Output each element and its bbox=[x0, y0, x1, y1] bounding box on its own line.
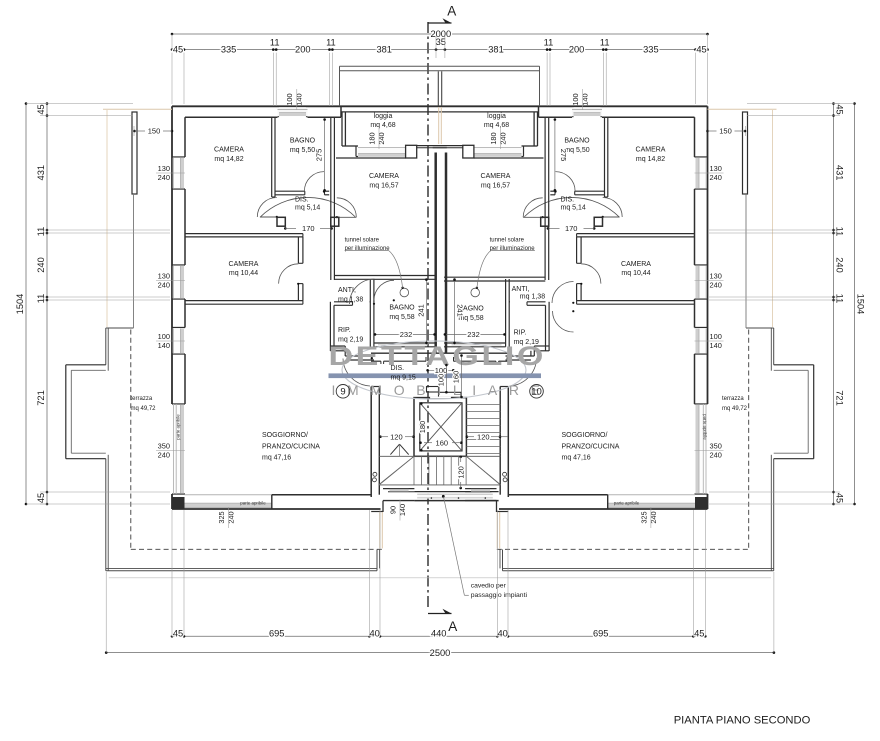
svg-text:loggia: loggia bbox=[374, 113, 393, 120]
svg-text:350: 350 bbox=[710, 441, 722, 450]
stair wall dx bbox=[507, 387, 509, 498]
shaft wall dx bbox=[445, 153, 448, 354]
svg-text:120: 120 bbox=[390, 432, 403, 441]
svg-text:mq 2,19: mq 2,19 bbox=[514, 339, 539, 346]
svg-text:per illuminazione: per illuminazione bbox=[345, 246, 391, 252]
svg-text:mq 4,68: mq 4,68 bbox=[370, 122, 395, 129]
dim 170 dx bbox=[593, 227, 596, 230]
svg-text:DIS.: DIS. bbox=[561, 197, 575, 204]
wall bagno bottom sx bbox=[275, 190, 305, 192]
svg-text:150: 150 bbox=[719, 127, 732, 136]
svg-text:140: 140 bbox=[710, 341, 722, 350]
svg-text:11: 11 bbox=[270, 37, 280, 47]
svg-text:mq 10,44: mq 10,44 bbox=[621, 270, 650, 277]
svg-text:ANTI,: ANTI, bbox=[338, 287, 356, 294]
door arc rip dx bbox=[552, 282, 574, 304]
svg-text:tunnel solare: tunnel solare bbox=[345, 238, 380, 244]
tan line top-left bbox=[103, 108, 172, 110]
door arc bagno 5,50 sx bbox=[304, 172, 324, 192]
stair flight boundary lines bbox=[379, 455, 501, 457]
dim chain bottom line bbox=[172, 635, 705, 637]
svg-text:240: 240 bbox=[158, 281, 170, 290]
balcony center divider bbox=[437, 71, 439, 106]
svg-text:160: 160 bbox=[452, 371, 461, 384]
svg-text:45: 45 bbox=[835, 493, 845, 503]
dim chain left line bbox=[46, 104, 48, 505]
wall rip left dx bbox=[548, 302, 550, 351]
window 100/140 soggiorno sx bbox=[173, 328, 184, 353]
tan lines bottom center dx bbox=[499, 512, 501, 548]
svg-text:240: 240 bbox=[36, 257, 46, 273]
tunnel solare circle sx bbox=[400, 288, 409, 297]
tunnel solare circle dx bbox=[471, 288, 480, 297]
svg-text:PRANZO/CUCINA: PRANZO/CUCINA bbox=[562, 443, 620, 450]
svg-text:150: 150 bbox=[148, 127, 161, 136]
svg-text:mq 5,14: mq 5,14 bbox=[295, 205, 320, 212]
corridor stub left dx bbox=[594, 217, 602, 226]
entry door apt 10 bbox=[510, 359, 537, 387]
elevator cab inner bbox=[420, 403, 462, 451]
svg-text:100: 100 bbox=[571, 93, 580, 105]
svg-text:mq 14,82: mq 14,82 bbox=[214, 156, 243, 163]
svg-text:180: 180 bbox=[367, 132, 376, 144]
wall camera10 right sx bbox=[297, 237, 299, 263]
svg-text:180: 180 bbox=[418, 421, 427, 434]
terrace dashed line dx bbox=[748, 330, 750, 549]
window 100/140 soggiorno dx bbox=[695, 328, 706, 353]
stair hall top wall bbox=[371, 352, 509, 354]
door arc camera 16,57 sx bbox=[337, 198, 357, 218]
svg-text:per illuminazione: per illuminazione bbox=[490, 246, 536, 252]
svg-text:140: 140 bbox=[581, 93, 590, 105]
door camera 14,82 dx bbox=[603, 216, 620, 218]
svg-text:RIP.: RIP. bbox=[514, 330, 527, 337]
window 100/140 bagno sx (top wall) bbox=[278, 107, 308, 116]
right exterior wall bbox=[707, 106, 709, 404]
corridor stub right dx bbox=[541, 217, 549, 226]
svg-text:100: 100 bbox=[285, 93, 294, 105]
dim 1504 right bbox=[854, 104, 856, 505]
window 130/240 camera 14,82 dx bbox=[695, 158, 706, 189]
top exterior wall left bbox=[172, 105, 341, 107]
elevator shaft outer bbox=[414, 398, 466, 457]
cavedio duct bbox=[427, 387, 439, 393]
svg-text:381: 381 bbox=[488, 44, 504, 54]
terrace outer edge sx bbox=[105, 328, 107, 365]
wall bagno558 left sx bbox=[369, 279, 371, 347]
svg-text:PIANTA PIANO SECONDO: PIANTA PIANO SECONDO bbox=[674, 715, 811, 727]
wall rip bottom dx bbox=[534, 345, 549, 347]
svg-text:mq 47,16: mq 47,16 bbox=[562, 455, 591, 462]
svg-text:11: 11 bbox=[600, 37, 610, 47]
svg-text:CAMERA: CAMERA bbox=[369, 173, 399, 180]
svg-text:695: 695 bbox=[593, 628, 609, 638]
svg-text:100: 100 bbox=[437, 374, 446, 387]
svg-text:11: 11 bbox=[326, 37, 336, 47]
svg-text:440: 440 bbox=[431, 628, 447, 638]
svg-text:11: 11 bbox=[36, 294, 46, 304]
step corner bottom sx bbox=[382, 501, 384, 512]
corridor stub left sx bbox=[277, 217, 285, 226]
svg-text:721: 721 bbox=[835, 390, 845, 406]
wall bagno bottom dx bbox=[575, 190, 605, 192]
svg-text:11: 11 bbox=[835, 294, 845, 304]
svg-text:241: 241 bbox=[455, 304, 464, 317]
apartment number 10 bbox=[530, 385, 544, 399]
wall bagno-loggia sx bbox=[330, 117, 332, 195]
svg-text:11: 11 bbox=[36, 227, 46, 237]
svg-text:35: 35 bbox=[436, 37, 446, 47]
dim 275 bagno sx bbox=[324, 119, 326, 192]
wall rip top sx bbox=[334, 301, 353, 303]
stairwell bottom wall dx bbox=[465, 488, 496, 490]
tan lines bottom center sx bbox=[379, 512, 381, 548]
svg-text:240: 240 bbox=[835, 257, 845, 273]
dim 241 sx bbox=[425, 279, 427, 343]
svg-text:200: 200 bbox=[295, 44, 311, 54]
elevator door gap bbox=[430, 397, 452, 399]
svg-text:335: 335 bbox=[643, 44, 659, 54]
wall bagno-loggia dx bbox=[548, 117, 550, 195]
svg-text:45: 45 bbox=[173, 44, 183, 54]
svg-text:terrazza: terrazza bbox=[722, 396, 744, 402]
svg-text:275: 275 bbox=[315, 149, 324, 162]
glass door 350/240 parte apribile dx bbox=[695, 405, 706, 494]
svg-text:ANTI,: ANTI, bbox=[512, 286, 530, 293]
corridor stub right sx bbox=[331, 217, 339, 226]
loggia south wall dx bbox=[522, 145, 538, 147]
svg-text:130: 130 bbox=[158, 164, 170, 173]
svg-text:240: 240 bbox=[498, 132, 507, 144]
svg-text:mq 1,38: mq 1,38 bbox=[338, 296, 363, 303]
dim extension lines top bbox=[272, 53, 274, 106]
svg-text:431: 431 bbox=[36, 165, 46, 181]
svg-text:1504: 1504 bbox=[856, 294, 866, 315]
svg-text:240: 240 bbox=[710, 173, 722, 182]
loggia left wall dx bbox=[533, 113, 535, 147]
dim 2500 line bbox=[106, 652, 774, 654]
door arc camera 16,57 dx bbox=[523, 198, 543, 218]
svg-text:mq 10,44: mq 10,44 bbox=[229, 270, 258, 277]
dim chain right line bbox=[833, 104, 835, 505]
wall camera10 top dx bbox=[577, 233, 695, 235]
bottom exterior wall dx bbox=[499, 508, 708, 510]
dim extension lines left bbox=[40, 103, 133, 105]
dim 120 stair dx bbox=[466, 435, 469, 438]
svg-text:CAMERA: CAMERA bbox=[481, 173, 511, 180]
wall rip bottom sx bbox=[330, 345, 345, 347]
wall rip left sx bbox=[329, 302, 331, 351]
door arc anti-bagno sx bbox=[374, 280, 394, 300]
stair direction arrow bbox=[390, 444, 399, 454]
svg-text:passaggio impianti: passaggio impianti bbox=[471, 592, 528, 599]
svg-text:DIS.: DIS. bbox=[391, 365, 405, 372]
svg-text:terrazza: terrazza bbox=[131, 396, 153, 402]
svg-text:275: 275 bbox=[559, 149, 568, 162]
window 100/140 bagno dx (top wall) bbox=[572, 107, 602, 116]
svg-text:45: 45 bbox=[696, 44, 706, 54]
svg-text:mq 16,57: mq 16,57 bbox=[481, 182, 510, 189]
svg-text:BAGNO: BAGNO bbox=[564, 138, 590, 145]
dim 150 sx bbox=[133, 126, 135, 136]
terrace dashed line sx bbox=[130, 330, 132, 549]
dim chain top line bbox=[172, 49, 708, 51]
dim extension lines right bbox=[747, 103, 840, 105]
svg-text:mq 16,57: mq 16,57 bbox=[369, 182, 398, 189]
loggia left wall sx bbox=[341, 113, 343, 147]
svg-text:parte apribile: parte apribile bbox=[703, 414, 708, 440]
svg-text:100: 100 bbox=[158, 332, 170, 341]
svg-text:130: 130 bbox=[710, 271, 722, 280]
wall camera16 left sx bbox=[330, 195, 332, 280]
stair treads upper flight bbox=[466, 404, 500, 406]
wall bagno558 left dx bbox=[505, 279, 507, 347]
svg-text:45: 45 bbox=[835, 104, 845, 114]
section marker top bbox=[428, 22, 452, 24]
dim extension lines bottom bbox=[171, 510, 173, 636]
section line A-A (dash-dot vertical) bbox=[427, 22, 429, 608]
svg-text:CAMERA: CAMERA bbox=[229, 261, 259, 268]
stair wall detail circles sx bbox=[373, 472, 377, 476]
svg-text:SOGGIORNO/: SOGGIORNO/ bbox=[562, 432, 608, 439]
entry door apt 9 bbox=[343, 359, 370, 387]
stair winder diagonal sx bbox=[379, 456, 415, 485]
terrace outer edge dx bbox=[773, 328, 775, 365]
dim 180 elevator bbox=[420, 402, 423, 405]
svg-text:40: 40 bbox=[370, 628, 380, 638]
svg-text:11: 11 bbox=[544, 37, 554, 47]
external stair sx bbox=[66, 364, 106, 366]
svg-text:mq 4,68: mq 4,68 bbox=[484, 122, 509, 129]
svg-text:loggia: loggia bbox=[487, 113, 506, 120]
svg-text:140: 140 bbox=[398, 504, 407, 516]
svg-text:721: 721 bbox=[36, 390, 46, 406]
balcony slab protrusion above bbox=[340, 65, 540, 67]
loggia parapet band bbox=[341, 105, 539, 107]
tan line top-right bbox=[708, 108, 777, 110]
dim 275 bagno dx bbox=[554, 119, 556, 192]
svg-text:232: 232 bbox=[400, 330, 413, 339]
svg-text:160: 160 bbox=[436, 438, 449, 447]
watermark bar bbox=[329, 373, 542, 378]
wall anti-top sx bbox=[334, 275, 435, 277]
door arc bagno 5,50 dx bbox=[556, 172, 576, 192]
dim 150 dx bbox=[745, 126, 747, 136]
dim 241 dx bbox=[454, 279, 456, 343]
loggia south wall sx bbox=[342, 145, 358, 147]
svg-text:100: 100 bbox=[435, 366, 448, 375]
door arc camera 10,44 dx bbox=[581, 264, 601, 284]
dim 2000 line bbox=[172, 33, 708, 35]
svg-text:mq 1,38: mq 1,38 bbox=[520, 294, 545, 301]
wall camera14-bagno sx bbox=[271, 117, 273, 197]
door arc anti-bagno dx bbox=[553, 311, 574, 332]
wall camera10 bottom (soggiorno top) dx bbox=[577, 300, 695, 302]
svg-text:325: 325 bbox=[217, 511, 226, 523]
wall camera10 bottom (soggiorno top) sx bbox=[185, 300, 303, 302]
svg-text:45: 45 bbox=[173, 628, 183, 638]
svg-text:CAMERA: CAMERA bbox=[636, 147, 666, 154]
svg-text:180: 180 bbox=[489, 132, 498, 144]
cavedio leader line bbox=[444, 497, 465, 596]
left exterior wall bbox=[171, 106, 173, 404]
stair big diagonal dx2 bbox=[467, 457, 501, 485]
svg-text:BAGNO: BAGNO bbox=[389, 305, 415, 312]
svg-text:100: 100 bbox=[710, 332, 722, 341]
dim 170 sx bbox=[284, 227, 287, 230]
wall camera14-bagno dx bbox=[607, 117, 609, 197]
svg-text:170: 170 bbox=[565, 224, 578, 233]
door arc rip sx bbox=[350, 279, 375, 304]
stair treads lower flight bbox=[413, 456, 415, 485]
window 130/240 camera 14,82 sx bbox=[173, 158, 184, 189]
lower terrace faint line bbox=[109, 577, 771, 579]
wall camera10 right dx bbox=[580, 237, 582, 263]
tan line terrace-left bbox=[106, 110, 108, 327]
svg-text:mq 5,58: mq 5,58 bbox=[389, 314, 414, 321]
wall camera16 left dx bbox=[548, 195, 550, 280]
svg-text:240: 240 bbox=[377, 132, 386, 144]
svg-text:431: 431 bbox=[835, 165, 845, 181]
shaft wall sx bbox=[434, 153, 437, 354]
wall anti-top dx bbox=[444, 276, 545, 278]
top exterior wall right bbox=[539, 105, 708, 107]
svg-text:11: 11 bbox=[835, 227, 845, 237]
glass door 350/240 parte apribile sx bbox=[173, 405, 184, 494]
svg-text:A: A bbox=[447, 4, 456, 19]
stair winder diagonal dx bbox=[466, 456, 500, 485]
section marker bottom bbox=[428, 613, 452, 615]
svg-text:parte apribile: parte apribile bbox=[240, 500, 266, 505]
svg-text:mq 2,19: mq 2,19 bbox=[338, 336, 363, 343]
svg-text:A: A bbox=[448, 619, 457, 634]
svg-text:240: 240 bbox=[710, 281, 722, 290]
svg-text:695: 695 bbox=[269, 628, 285, 638]
step corner bottom dx bbox=[496, 501, 498, 512]
svg-text:90: 90 bbox=[388, 506, 397, 514]
tan line terrace-right bbox=[772, 110, 774, 327]
dim 100 center bbox=[427, 369, 453, 371]
svg-text:2500: 2500 bbox=[430, 648, 451, 658]
svg-text:mq 5,50: mq 5,50 bbox=[290, 147, 315, 154]
svg-text:mq 14,82: mq 14,82 bbox=[636, 156, 665, 163]
svg-text:mq 49,72: mq 49,72 bbox=[722, 406, 748, 412]
svg-text:mq 47,16: mq 47,16 bbox=[262, 455, 291, 462]
svg-text:DIS.: DIS. bbox=[295, 197, 309, 204]
svg-text:240: 240 bbox=[710, 451, 722, 460]
door arc camera 10,44 sx bbox=[279, 264, 299, 284]
svg-text:45: 45 bbox=[36, 493, 46, 503]
double door arc DIS 5,14 sx bbox=[261, 197, 356, 216]
tan overhead lines loggia divider bbox=[438, 107, 440, 144]
stairwell bottom wall sx bbox=[383, 488, 414, 490]
svg-text:CAMERA: CAMERA bbox=[621, 261, 651, 268]
svg-text:232: 232 bbox=[467, 330, 480, 339]
pilaster fin sx bbox=[132, 112, 137, 194]
svg-text:1504: 1504 bbox=[15, 294, 25, 315]
svg-text:241: 241 bbox=[416, 304, 425, 317]
pilaster fin dx bbox=[743, 112, 748, 194]
svg-text:9: 9 bbox=[340, 387, 345, 398]
svg-text:140: 140 bbox=[295, 93, 304, 105]
svg-text:200: 200 bbox=[569, 44, 585, 54]
apartment number 9 bbox=[336, 385, 350, 399]
svg-text:40: 40 bbox=[498, 628, 508, 638]
bottom exterior wall sx bbox=[172, 508, 381, 510]
wall bagno558 bottom dx bbox=[444, 342, 506, 344]
svg-text:mq 5,14: mq 5,14 bbox=[561, 205, 586, 212]
svg-text:120: 120 bbox=[456, 466, 465, 479]
watermark ellipse bbox=[342, 341, 526, 399]
dim 100 rot center bbox=[445, 365, 447, 393]
dim 232 dx bbox=[445, 333, 506, 335]
svg-text:10: 10 bbox=[531, 387, 542, 398]
dim 120 stair center bbox=[459, 456, 462, 459]
double door arc DIS 5,14 dx bbox=[524, 197, 619, 216]
stair wall sx bbox=[370, 387, 372, 498]
elevator cross bbox=[420, 403, 462, 451]
svg-text:170: 170 bbox=[302, 224, 315, 233]
stair big diagonal sx bbox=[379, 456, 415, 485]
door camera 14,82 sx bbox=[260, 216, 277, 218]
svg-text:mq 9,15: mq 9,15 bbox=[391, 374, 416, 381]
svg-text:RIP.: RIP. bbox=[338, 327, 351, 334]
svg-text:parte apribile: parte apribile bbox=[614, 500, 640, 505]
dim 232 sx bbox=[375, 333, 436, 335]
overhead line above terrace dx bbox=[745, 194, 747, 328]
dim 120 stair sx bbox=[379, 435, 382, 438]
svg-text:325: 325 bbox=[639, 511, 648, 523]
stair wall detail circles dx bbox=[503, 472, 507, 476]
wall bagno558 bottom sx bbox=[374, 342, 436, 344]
svg-text:mq 49,72: mq 49,72 bbox=[131, 406, 157, 412]
svg-text:350: 350 bbox=[158, 441, 170, 450]
svg-text:240: 240 bbox=[649, 511, 658, 523]
svg-text:130: 130 bbox=[710, 164, 722, 173]
svg-text:BAGNO: BAGNO bbox=[290, 138, 316, 145]
svg-text:cavedio per: cavedio per bbox=[471, 583, 507, 590]
svg-text:240: 240 bbox=[227, 511, 236, 523]
svg-text:140: 140 bbox=[158, 341, 170, 350]
svg-text:381: 381 bbox=[376, 44, 392, 54]
window 130/240 camera 10,44 sx bbox=[173, 266, 184, 299]
window 130/240 camera 10,44 dx bbox=[695, 266, 706, 299]
svg-text:parte apribile: parte apribile bbox=[176, 414, 181, 440]
wall camera10 top sx bbox=[185, 233, 303, 235]
dim 160 rot center bbox=[461, 355, 463, 398]
svg-text:tunnel solare: tunnel solare bbox=[490, 238, 525, 244]
external stair dx bbox=[774, 364, 814, 366]
overhead line above terrace sx bbox=[133, 194, 135, 328]
svg-text:PRANZO/CUCINA: PRANZO/CUCINA bbox=[262, 443, 320, 450]
svg-text:SOGGIORNO/: SOGGIORNO/ bbox=[262, 432, 308, 439]
svg-text:120: 120 bbox=[477, 432, 490, 441]
svg-text:45: 45 bbox=[36, 104, 46, 114]
svg-text:240: 240 bbox=[158, 173, 170, 182]
svg-text:240: 240 bbox=[158, 451, 170, 460]
svg-text:45: 45 bbox=[694, 628, 704, 638]
stairwell bottom wall center bbox=[414, 491, 498, 493]
svg-text:335: 335 bbox=[221, 44, 237, 54]
wall rip top dx bbox=[527, 301, 546, 303]
svg-text:130: 130 bbox=[158, 271, 170, 280]
svg-text:CAMERA: CAMERA bbox=[214, 147, 244, 154]
dim 160 elevator bbox=[419, 441, 422, 444]
dim 1504 left bbox=[25, 104, 27, 505]
